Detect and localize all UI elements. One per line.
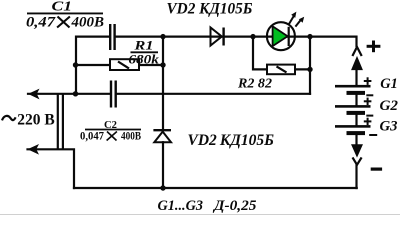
- svg-text:680k: 680k: [128, 51, 159, 66]
- battery G2: [335, 105, 371, 115]
- junction node B / R1: [160, 62, 165, 67]
- resistor R1: [110, 59, 139, 70]
- wire bottom rail: [74, 187, 357, 189]
- wire R1 row: [76, 64, 164, 66]
- plus terminal label: [367, 41, 381, 53]
- battery polarity marks G3: [364, 118, 377, 135]
- label C2: [80, 120, 141, 143]
- LED HL1: [267, 12, 304, 51]
- label G2: [380, 98, 399, 114]
- minus terminal label: [371, 168, 382, 171]
- battery G3: [335, 125, 371, 135]
- junction left bus / mains rail: [73, 91, 78, 96]
- label G3: [380, 118, 398, 134]
- wire lower mains lead: [28, 149, 75, 188]
- junction R2 right: [307, 67, 312, 72]
- junction bottom rail / VD2: [160, 185, 165, 190]
- label VD2 top: [167, 1, 253, 18]
- junction LED anode: [250, 34, 255, 39]
- connector pin-socket bottom (-): [352, 145, 362, 165]
- connector pin-socket top (+): [352, 47, 362, 70]
- junction left bus / R1: [73, 62, 78, 67]
- resistor R2: [267, 65, 295, 75]
- wire battery stem segments: [355, 69, 357, 188]
- battery polarity marks G2: [364, 98, 374, 116]
- svg-text:400В: 400В: [121, 129, 141, 143]
- wire R2 loop: [253, 37, 310, 94]
- svg-text:VD2 КД105Б: VD2 КД105Б: [188, 132, 275, 149]
- wire top rail: [76, 37, 357, 94]
- junction LED cathode: [307, 34, 312, 39]
- capacitor C1: [109, 24, 116, 50]
- svg-text:R1: R1: [133, 37, 153, 52]
- diode VD1 (top, horizontal): [211, 28, 224, 46]
- capacitor C2: [110, 81, 117, 108]
- junction node B top: [160, 34, 165, 39]
- label ~220V: [2, 112, 55, 129]
- label VD2 bottom: [188, 132, 275, 149]
- label G1: [380, 76, 398, 92]
- battery polarity marks G1: [364, 77, 374, 95]
- label C1: [26, 0, 104, 30]
- label R2: [237, 77, 272, 92]
- svg-text:220 В: 220 В: [17, 112, 55, 129]
- mains arrow lower: [28, 144, 40, 155]
- svg-text:Д-0,25: Д-0,25: [212, 198, 257, 214]
- svg-text:0,47: 0,47: [26, 14, 56, 30]
- svg-text:G1: G1: [380, 76, 398, 92]
- label R1: [128, 37, 159, 66]
- svg-text:C1: C1: [52, 0, 73, 13]
- svg-text:G1...G3: G1...G3: [158, 198, 204, 214]
- mains plug X1 contact bars: [58, 95, 63, 148]
- scan edge artifact: [0, 213, 400, 215]
- wire center vertical (node B to VD2 to bottom): [162, 37, 164, 188]
- svg-text:G2: G2: [380, 98, 399, 114]
- svg-text:G3: G3: [380, 118, 398, 134]
- svg-text:0,047: 0,047: [80, 129, 104, 143]
- caption G1...G3: [158, 198, 258, 214]
- svg-text:VD2 КД105Б: VD2 КД105Б: [167, 1, 253, 18]
- diode VD2 (vertical): [153, 130, 171, 142]
- wire mid rail (mains to C2 to right leg): [28, 93, 310, 95]
- battery G1: [335, 85, 371, 95]
- svg-text:R2 82: R2 82: [237, 77, 272, 92]
- mains arrow upper: [28, 89, 40, 100]
- svg-text:400В: 400В: [71, 14, 104, 30]
